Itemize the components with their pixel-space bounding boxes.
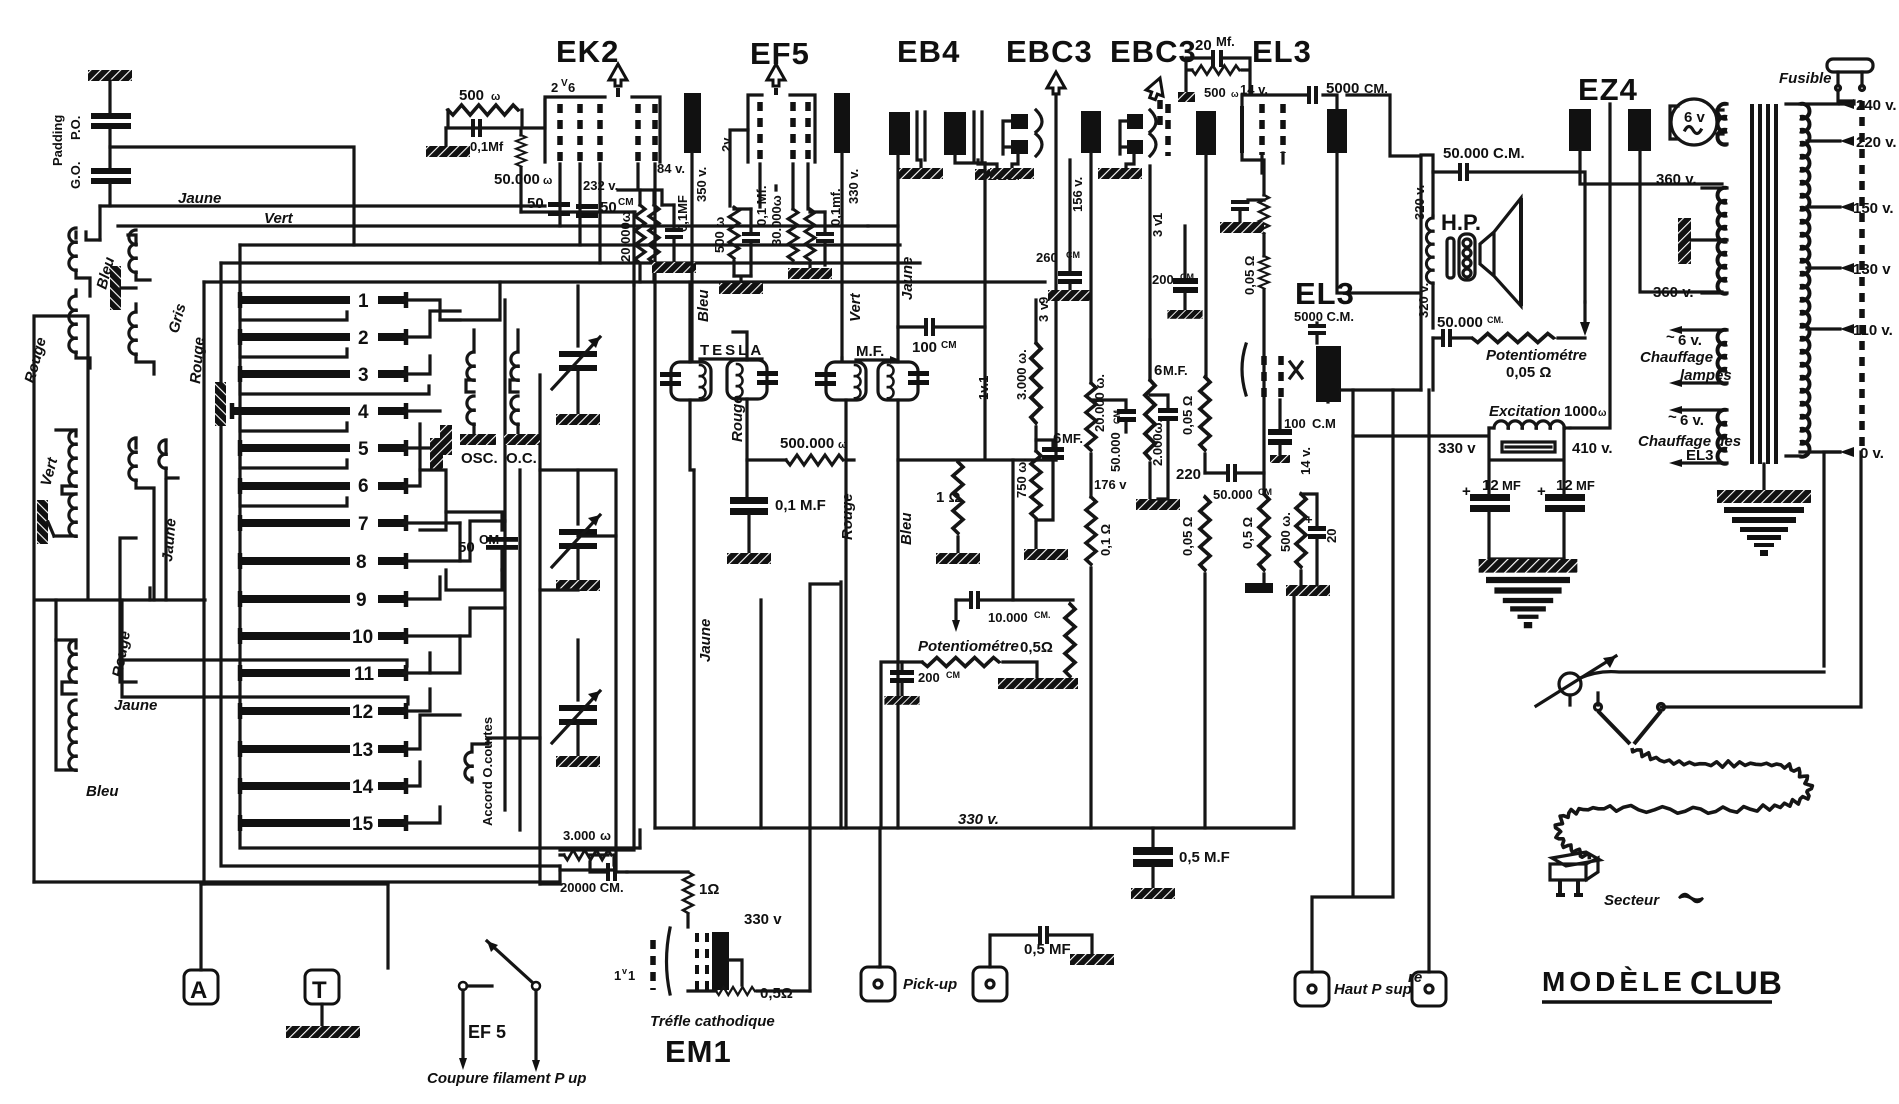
- svg-text:+: +: [1537, 483, 1546, 500]
- svg-text:Secteur: Secteur: [1604, 892, 1660, 909]
- svg-text:MF: MF: [1502, 478, 1521, 493]
- ground bar potentiometer: [998, 678, 1078, 689]
- capacitor 0,5 MF pick-up: [990, 926, 1114, 967]
- capacitor + ground EL3-1 cathode: [1220, 200, 1264, 233]
- svg-text:MODÈLE: MODÈLE: [1542, 966, 1686, 997]
- coil O.C.: [510, 330, 518, 434]
- choke output transformer primary: [1421, 155, 1433, 328]
- wire EF5 grid top: [730, 130, 808, 209]
- grid arrow EBC3-1: [1047, 72, 1065, 460]
- label ~6v chauffage des EL3: [1638, 409, 1741, 464]
- squiggle secteur: [1679, 894, 1703, 902]
- svg-text:Potentiométre: Potentiométre: [918, 638, 1019, 655]
- resistor + capacitor 0,1mf EF5 screen: [805, 188, 843, 265]
- mains plug: [1550, 852, 1600, 897]
- svg-text:EBC3: EBC3: [1006, 34, 1093, 69]
- ground under T: [286, 1004, 360, 1038]
- svg-text:Rouge: Rouge: [729, 395, 746, 442]
- svg-text:MF: MF: [1576, 478, 1595, 493]
- wire junction row y=600 left: [34, 316, 205, 882]
- svg-text:330 v.: 330 v.: [846, 169, 861, 204]
- IF transformer T2 secondary: [878, 327, 929, 828]
- svg-text:20.000ω: 20.000ω: [618, 211, 633, 262]
- svg-text:Jaune: Jaune: [178, 190, 221, 207]
- wire haut-parleur supp left: [1312, 390, 1429, 972]
- svg-text:130 v: 130 v: [1853, 261, 1891, 278]
- switch EF5 filament: [459, 941, 540, 1072]
- terminal T: [305, 970, 339, 1004]
- resistor 0,05 ohm first: [1180, 377, 1210, 473]
- ground triangle big left: [1479, 559, 1578, 628]
- resistor 0.05 ohm hum: [1242, 195, 1269, 473]
- svg-text:1Ω: 1Ω: [699, 881, 719, 898]
- svg-text:0,05 Ω: 0,05 Ω: [1242, 256, 1257, 295]
- terminal pick-up left: [861, 967, 895, 1001]
- terminal haut P sup right: [1412, 972, 1446, 1006]
- svg-text:Vert: Vert: [264, 210, 294, 227]
- svg-text:5000 C.M.: 5000 C.M.: [1294, 309, 1354, 324]
- tube EL3-1 grid dashed: [1262, 104, 1283, 155]
- svg-text:320 v.: 320 v.: [1416, 283, 1431, 318]
- grid arrow EBC3-2: [1144, 75, 1168, 130]
- numbers 1-15: [352, 291, 375, 835]
- variable capacitor CV3 bf: [552, 640, 600, 767]
- svg-text:O.C.: O.C.: [506, 450, 537, 467]
- svg-text:EL3: EL3: [1686, 447, 1714, 464]
- svg-text:0,5 M.F: 0,5 M.F: [1179, 849, 1230, 866]
- capacitor 50cm trimmer: [446, 512, 518, 570]
- wire 320v vertical: [1347, 95, 1421, 390]
- capacitor 12MF first: [1462, 477, 1521, 559]
- wire bottom bank: [388, 738, 640, 968]
- svg-text:7: 7: [358, 514, 369, 535]
- svg-text:Coupure filament P up: Coupure filament P up: [427, 1070, 586, 1087]
- capacitor 0,1MF EK2 screen: [652, 195, 696, 273]
- ground O.C.: [504, 434, 540, 445]
- coil L7 small right: [159, 440, 178, 478]
- svg-text:Bleu: Bleu: [695, 289, 712, 322]
- svg-text:+: +: [1462, 483, 1471, 500]
- resistor 20.000w anode load: [1086, 374, 1107, 497]
- svg-text:6: 6: [1154, 362, 1162, 379]
- capacitor 50.000CM horizontal: [1205, 464, 1272, 502]
- potentiometer 0.05 ohm tone: [1433, 302, 1590, 381]
- anode bar EBC3-2: [1196, 111, 1216, 377]
- wire 0v down to switch: [1824, 452, 1840, 666]
- wire 330v main bus: [655, 595, 1294, 828]
- anode bar EF5: [834, 93, 850, 360]
- transformer secondary 6v EL3: [1669, 406, 1727, 467]
- capacitor 0,1Mf EK2: [470, 119, 504, 154]
- svg-text:500: 500: [459, 87, 484, 104]
- svg-text:ω: ω: [1598, 408, 1607, 419]
- wire left block verticals: [34, 480, 560, 882]
- wire bus Vert: [118, 224, 868, 227]
- lamp 6v dial: [1670, 99, 1723, 145]
- fuse Fusible: [1779, 59, 1873, 101]
- svg-text:ω: ω: [491, 91, 500, 103]
- anode bar EL3-1: [1327, 109, 1421, 293]
- IF transformer T1 secondary: [727, 332, 778, 497]
- svg-text:1: 1: [1150, 213, 1165, 220]
- capacitor padding G.O.: [91, 168, 131, 206]
- transformer secondary winding 6v dial: [1718, 104, 1728, 145]
- svg-text:3: 3: [1036, 315, 1051, 322]
- svg-text:15: 15: [352, 814, 374, 835]
- svg-text:200: 200: [918, 670, 940, 685]
- coil L4 Gris lower: [129, 304, 154, 374]
- svg-text:~: ~: [1666, 329, 1675, 346]
- svg-text:6: 6: [358, 476, 369, 497]
- svg-text:84 v.: 84 v.: [657, 161, 685, 176]
- svg-text:ω: ω: [1231, 89, 1239, 99]
- svg-text:50: 50: [458, 539, 475, 556]
- svg-text:2: 2: [358, 328, 369, 349]
- svg-text:3: 3: [1150, 230, 1165, 237]
- svg-text:20000 CM.: 20000 CM.: [560, 880, 624, 895]
- svg-text:~: ~: [1668, 409, 1677, 426]
- svg-text:50.000: 50.000: [1437, 314, 1483, 331]
- svg-text:350 v.: 350 v.: [694, 167, 709, 202]
- svg-text:Accord O.courtes: Accord O.courtes: [480, 717, 495, 826]
- svg-text:1: 1: [358, 291, 369, 312]
- ground triangle transformer: [1717, 490, 1811, 556]
- hatch pad left of OSC: [440, 425, 452, 455]
- svg-text:MF.: MF.: [1062, 431, 1083, 446]
- svg-text:CM: CM: [946, 670, 960, 680]
- svg-text:Potentiométre: Potentiométre: [1486, 347, 1587, 364]
- svg-text:12: 12: [352, 702, 373, 723]
- resistor 0,1 ohm: [1086, 497, 1113, 828]
- svg-text:Bleu: Bleu: [898, 512, 915, 545]
- coil L3 Gris top: [128, 230, 150, 280]
- tube EM1: [614, 928, 742, 995]
- svg-text:Jaune: Jaune: [697, 619, 714, 662]
- svg-text:500.000: 500.000: [780, 435, 834, 452]
- RC 20MF + 500w tone: [1178, 34, 1250, 102]
- svg-text:5: 5: [358, 439, 369, 460]
- svg-text:500 ω.: 500 ω.: [1278, 512, 1293, 552]
- resistor 1 ohm EM1: [627, 872, 719, 927]
- wire osc section links: [420, 470, 616, 590]
- svg-text:EL3: EL3: [1295, 276, 1355, 311]
- svg-text:0,5Ω: 0,5Ω: [1020, 639, 1053, 656]
- capacitor padding P.O.: [91, 113, 131, 168]
- tap 220 v.: [1807, 134, 1897, 151]
- svg-text:CLUB: CLUB: [1690, 965, 1783, 1001]
- switch bank frame: [204, 245, 640, 884]
- potentiometer 0,5 ohm volume: [881, 638, 1053, 828]
- switch contact rows 1-15: [232, 300, 404, 823]
- coil L5 Vert tall: [54, 430, 76, 536]
- svg-text:H.P.: H.P.: [1441, 210, 1481, 235]
- svg-text:9: 9: [356, 590, 367, 611]
- IF transformer TESLA label: [700, 342, 764, 359]
- wire verticals to bus: [694, 460, 1056, 967]
- transformer secondary HT winding: [1702, 188, 1727, 294]
- svg-text:ω: ω: [600, 828, 611, 843]
- ground EF5 cathode: [719, 276, 763, 294]
- variable capacitor CV1 tuning: [552, 286, 600, 425]
- label ~6v chauffage lampes: [1640, 329, 1732, 384]
- svg-text:2v.: 2v.: [719, 135, 734, 152]
- svg-text:20: 20: [1324, 529, 1339, 543]
- svg-text:10: 10: [352, 627, 373, 648]
- coil L8 Rouge lower group: [56, 640, 76, 770]
- svg-text:CM.: CM.: [1487, 315, 1504, 325]
- svg-text:Jaune: Jaune: [899, 257, 916, 300]
- capacitor 0,1 M.F decoupling: [727, 497, 826, 564]
- ground EBC3-2: [1098, 154, 1142, 179]
- capacitor 50.000cm coupling: [1091, 400, 1136, 472]
- svg-text:A: A: [190, 977, 207, 1004]
- svg-text:0,5 MF: 0,5 MF: [1024, 941, 1071, 958]
- wire from padding junction to EK2: [110, 147, 354, 245]
- terminal A: [184, 884, 218, 1004]
- svg-text:6 v.: 6 v.: [1680, 412, 1704, 429]
- svg-text:330 v: 330 v: [1438, 440, 1476, 457]
- svg-text:200: 200: [1152, 272, 1174, 287]
- terminal haut P sup left: [1295, 972, 1329, 1006]
- wire bus rows into switch box: [204, 245, 1045, 282]
- svg-text:0,1 M.F: 0,1 M.F: [775, 497, 826, 514]
- svg-text:v: v: [622, 966, 627, 976]
- svg-text:50.000: 50.000: [494, 171, 540, 188]
- svg-text:110 v.: 110 v.: [1853, 322, 1893, 339]
- capacitor 5000 CM top: [1242, 80, 1388, 109]
- svg-text:0,05 Ω: 0,05 Ω: [1506, 364, 1551, 381]
- anode bar EB4 right: [944, 112, 985, 163]
- svg-text:Chauffage: Chauffage: [1640, 349, 1713, 366]
- svg-text:M.F.: M.F.: [856, 343, 884, 360]
- variable capacitor CV2 osc: [552, 470, 600, 591]
- coil OSC: [466, 330, 474, 434]
- speaker H.P.: [1441, 198, 1521, 306]
- svg-text:CM.: CM.: [1034, 610, 1051, 620]
- svg-text:750 ω.: 750 ω.: [1014, 458, 1029, 498]
- svg-text:EBC3: EBC3: [1110, 34, 1197, 69]
- svg-text:10.000: 10.000: [988, 610, 1028, 625]
- svg-text:50: 50: [600, 199, 617, 216]
- resistor 50.000w osc: [494, 131, 552, 212]
- capacitor 0,5 M.F bus: [1131, 828, 1230, 899]
- resistor 500w cathode EL3: [1278, 494, 1330, 596]
- svg-text:EK2: EK2: [556, 34, 619, 69]
- capacitor 20mf bypass: [1301, 494, 1339, 585]
- capacitor 6M.F. second: [1150, 362, 1188, 499]
- tap 240 v.: [1800, 97, 1897, 114]
- svg-text:100: 100: [1284, 416, 1306, 431]
- svg-text:Pick-up: Pick-up: [903, 976, 957, 993]
- ground antenna top-left: [88, 70, 132, 112]
- svg-text:1: 1: [628, 968, 635, 983]
- svg-text:330 v: 330 v: [744, 911, 782, 928]
- tap 110 v.: [1807, 322, 1893, 339]
- dashed mains selector line: [1859, 101, 1865, 452]
- IF transformer T1 primary: [660, 282, 711, 470]
- svg-text:C.M: C.M: [1312, 416, 1336, 431]
- anode bars EZ4: [1569, 109, 1722, 292]
- diode wires EB4 right: [974, 112, 1019, 180]
- wire Rouge T2 down: [844, 460, 847, 828]
- wire 410v to EZ4: [1570, 104, 1610, 428]
- svg-text:156 v.: 156 v.: [1070, 177, 1085, 212]
- tube EF5 envelope: [748, 64, 815, 164]
- svg-text:8: 8: [356, 552, 367, 573]
- svg-text:330 v.: 330 v.: [958, 811, 999, 828]
- wire feeds rows 11 and 12: [122, 600, 408, 704]
- svg-text:EZ4: EZ4: [1578, 72, 1638, 107]
- svg-text:ω: ω: [543, 175, 552, 187]
- coil L6 Jaune mid: [129, 438, 154, 600]
- ground EF5 screen: [788, 263, 832, 279]
- anode bar EB4 left: [889, 112, 910, 327]
- svg-text:lampes: lampes: [1680, 367, 1732, 384]
- coil L1 antenna Bleu top: [69, 228, 100, 296]
- svg-text:20: 20: [1195, 37, 1212, 54]
- coil L2 Rouge left: [69, 290, 90, 368]
- svg-text:0,05 Ω: 0,05 Ω: [1180, 517, 1195, 556]
- resistor 20.000w pair EK2: [618, 190, 659, 282]
- resistor 500w grid EK2: [446, 87, 545, 128]
- ground bar at row 4: [215, 382, 226, 426]
- svg-text:0,05 Ω: 0,05 Ω: [1180, 396, 1195, 435]
- mains cord wavy: [1555, 748, 1812, 859]
- svg-text:14 v.: 14 v.: [1298, 447, 1313, 475]
- tap 130 v: [1807, 261, 1891, 278]
- svg-text:176 v: 176 v: [1094, 477, 1127, 492]
- svg-text:Jaune: Jaune: [114, 697, 157, 714]
- tube EL3-2: [1242, 344, 1421, 402]
- svg-text:1000: 1000: [1564, 403, 1597, 420]
- svg-text:Padding: Padding: [50, 115, 65, 166]
- switch mains rotary: [1536, 452, 1861, 744]
- transformer core: [1752, 104, 1776, 490]
- tap 0 v.: [1800, 445, 1884, 462]
- svg-text:EF5: EF5: [750, 36, 810, 71]
- resistor 500w EF5 cathode: [712, 207, 739, 276]
- electrostatic screen: [1678, 218, 1727, 264]
- svg-text:Tréfle cathodique: Tréfle cathodique: [650, 1013, 775, 1030]
- svg-text:0 v.: 0 v.: [1860, 445, 1884, 462]
- svg-text:Vert: Vert: [847, 292, 864, 322]
- wire EM1 to bus: [808, 828, 811, 991]
- capacitor 6MF cathode: [1036, 430, 1083, 520]
- resistor 2.000w: [1136, 340, 1180, 510]
- resistor AVC vertical: [1065, 604, 1075, 680]
- capacitor 0,1Mf EF5 cathode: [734, 186, 769, 276]
- tap 150 v.: [1807, 200, 1894, 217]
- svg-text:TESLA: TESLA: [700, 342, 764, 359]
- resistor 3.000w to EM1: [560, 828, 627, 895]
- svg-text:0,1 Ω: 0,1 Ω: [1098, 524, 1113, 556]
- svg-text:9: 9: [1036, 297, 1051, 304]
- svg-text:360 v.: 360 v.: [1653, 284, 1694, 301]
- anode bar EK2: [684, 93, 701, 360]
- svg-text:OSC.: OSC.: [461, 450, 498, 467]
- svg-text:500 ω: 500 ω: [712, 217, 727, 253]
- svg-text:Bleu: Bleu: [86, 783, 119, 800]
- svg-text:Mf.: Mf.: [1216, 34, 1235, 49]
- wire loop returns under rows 1-6: [240, 308, 429, 506]
- ground small Gris: [110, 266, 136, 310]
- svg-text:0,1 Mf.: 0,1 Mf.: [754, 186, 769, 226]
- ground OSC: [460, 434, 496, 445]
- wire bus Jaune: [100, 206, 545, 240]
- svg-text:T: T: [312, 977, 327, 1004]
- capacitor 10.000 CM: [952, 460, 1073, 632]
- resistor 0,5 ohm: [1240, 494, 1273, 593]
- grid dashed EBC3-2: [1165, 104, 1171, 156]
- coil accord O.courtes: [465, 744, 488, 782]
- capacitor 12MF second: [1537, 477, 1595, 559]
- svg-text:0,5Ω: 0,5Ω: [760, 985, 793, 1002]
- wire row1 link: [430, 282, 500, 673]
- wire EK2 pins to buses: [560, 164, 662, 285]
- svg-text:0,5 Ω: 0,5 Ω: [1240, 517, 1255, 549]
- wire long verticals centre: [560, 282, 655, 870]
- svg-text:6 v: 6 v: [1684, 109, 1706, 126]
- ground EBC3-1: [990, 154, 1034, 179]
- svg-text:14: 14: [352, 777, 374, 798]
- svg-text:0,1Mf: 0,1Mf: [470, 139, 504, 154]
- capacitor 260 cm: [1036, 160, 1092, 301]
- svg-text:EM1: EM1: [665, 1034, 732, 1069]
- svg-text:50.000: 50.000: [1213, 487, 1253, 502]
- tube EBC3-2 diode plates: [1120, 110, 1156, 156]
- tube EBC3-1 diode plates: [1003, 110, 1042, 156]
- svg-text:500: 500: [1204, 85, 1226, 100]
- svg-text:50.000 C.M.: 50.000 C.M.: [1443, 145, 1525, 162]
- svg-text:Haut P sup: Haut P sup: [1334, 981, 1412, 998]
- resistor 1 ohm: [936, 462, 980, 564]
- resistor 3.000w: [1014, 300, 1041, 423]
- wire EBC3-2 cathode: [1148, 166, 1151, 380]
- capacitor 5000CM grid EL3-2: [1308, 323, 1326, 343]
- svg-text:6 v.: 6 v.: [1678, 332, 1702, 349]
- capacitor 100 C.M grid EL3: [1268, 400, 1336, 463]
- svg-text:6: 6: [568, 80, 575, 95]
- capacitor 200 cm: [1152, 226, 1203, 319]
- tube EK2 envelope: [545, 64, 660, 164]
- svg-text:220: 220: [1176, 466, 1201, 483]
- svg-text:EF 5: EF 5: [468, 1022, 506, 1042]
- svg-text:4: 4: [358, 402, 369, 423]
- svg-text:11: 11: [354, 664, 375, 685]
- resistor 500.000w AVC: [747, 435, 854, 465]
- svg-text:3.000: 3.000: [563, 828, 596, 843]
- svg-text:CM: CM: [1066, 250, 1080, 260]
- transformer secondary 6v heater lamps: [1669, 326, 1727, 387]
- svg-text:M.F.: M.F.: [1163, 363, 1188, 378]
- svg-text:CM: CM: [618, 197, 634, 208]
- svg-text:CM: CM: [941, 340, 957, 351]
- svg-text:V: V: [561, 78, 568, 89]
- svg-text:G.O.: G.O.: [68, 162, 83, 189]
- wire EB4 diode down: [868, 163, 1036, 460]
- svg-text:Excitation: Excitation: [1489, 403, 1561, 420]
- svg-text:3.000 ω.: 3.000 ω.: [1014, 349, 1029, 400]
- svg-text:0,1MF: 0,1MF: [675, 195, 690, 232]
- capacitor 100 CM: [898, 318, 985, 356]
- label M.F.: [856, 343, 900, 364]
- resistor 30.000w screen EF5: [769, 195, 798, 260]
- capacitor 200 cm AVC: [884, 662, 960, 705]
- svg-text:2: 2: [551, 80, 558, 95]
- svg-text:P.O.: P.O.: [68, 116, 83, 140]
- svg-text:13: 13: [352, 740, 373, 761]
- wires right of rows: [404, 300, 505, 823]
